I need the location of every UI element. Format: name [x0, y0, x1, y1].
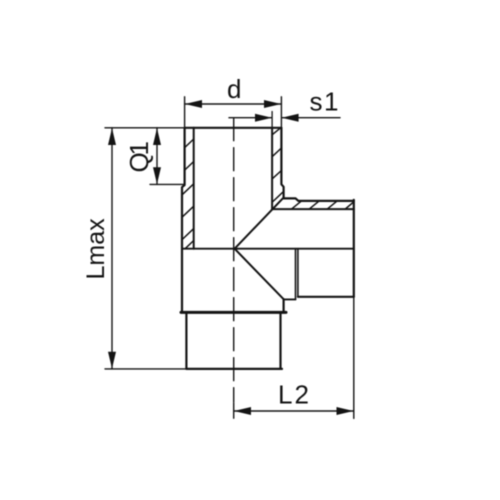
half-section boundary / branch axis line: [182, 248, 354, 250]
bottom end face + Lmax extension: [105, 368, 186, 370]
L2 left arrow: [234, 407, 251, 415]
s1 right arrow (points left at outer wall): [282, 114, 299, 122]
branch body-to-spigot step (double line): [295, 249, 297, 300]
bottom spigot left edge: [185, 314, 187, 369]
centerline (vertical axis), dashed: [233, 118, 235, 402]
svg-text:2: 2: [295, 380, 309, 410]
bottom spigot right edge: [279, 314, 281, 369]
d right arrow: [264, 100, 281, 108]
Lmax bottom arrow: [108, 352, 116, 369]
Lmax top arrow: [108, 128, 116, 145]
hatching branch top wall: [292, 201, 354, 209]
tee body: right inner wall + s1 extension above: [271, 112, 273, 128]
bottom leg: body-to-spigot step face: [181, 311, 286, 314]
s1 left arrow (points right at inner wall): [255, 114, 272, 122]
svg-text:1: 1: [324, 87, 338, 117]
svg-text:L: L: [278, 380, 292, 410]
svg-text:Lmax: Lmax: [82, 218, 110, 280]
step connector at lower corner: [284, 298, 296, 300]
dimension Q1: lower extension line: [150, 183, 185, 185]
arrowheads: [108, 100, 354, 415]
branch outer top with spigot step: [284, 198, 354, 201]
dimension s1: left leader: [229, 117, 272, 119]
dimension Q1: line: [156, 128, 158, 185]
dimension d: line: [185, 103, 282, 105]
svg-text:1: 1: [124, 141, 154, 155]
dimension Lmax: line: [111, 128, 113, 369]
tee body: left outer wall: [182, 128, 185, 311]
hatching left wall: [182, 139, 194, 248]
hatching right wall: [272, 128, 283, 202]
branch mouth end face: [353, 200, 355, 297]
dimension L2: line: [234, 410, 354, 412]
dimension d: extension lines: [184, 97, 186, 128]
L2 right arrow: [337, 407, 354, 415]
svg-text:s: s: [310, 87, 323, 117]
svg-text:d: d: [227, 74, 241, 104]
tee body: left inner wall: [193, 128, 195, 249]
branch outer bottom (external view): [298, 296, 354, 298]
d left arrow: [185, 100, 202, 108]
external gusset diagonal (lower): [235, 249, 284, 300]
tee body: top mouth edge + Lmax extension: [105, 127, 185, 129]
dimension L2: right extension: [353, 297, 355, 419]
internal chamfer diagonal (upper): [235, 198, 284, 249]
tee body: right outer wall: [281, 128, 283, 198]
Q1 top arrow: [153, 128, 161, 145]
branch inner top wall: [272, 208, 354, 210]
dimension s1: right leader: [282, 117, 340, 119]
Q1 bottom arrow: [153, 167, 161, 184]
body lower-right edge: [283, 299, 285, 311]
